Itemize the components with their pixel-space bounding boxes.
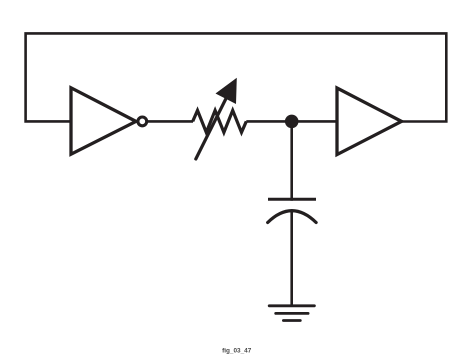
node A junction dot (285, 115, 299, 129)
wire: feedback loop from buffer output up over top to inverter input (26, 33, 447, 121)
wire: capacitor C1 to ground (290, 210, 293, 306)
ground symbol bar 2 (276, 312, 308, 315)
svg-text:fig_03_47: fig_03_47 (222, 348, 252, 355)
wire: node A to buffer U2 input (292, 120, 337, 123)
ground symbol bar 1 (269, 304, 314, 307)
capacitor C1 top plate (268, 198, 316, 201)
wire: U1 bubble to variable resistor R1 (147, 120, 193, 123)
variable resistor R1 zigzag body (193, 110, 247, 132)
ground symbol bar 3 (283, 319, 300, 322)
capacitor C1 curved bottom plate (268, 211, 316, 223)
wire: node A down to capacitor C1 top plate (290, 121, 293, 200)
variable resistor R1 arrowhead (216, 78, 237, 104)
wire: R1 to node A (246, 120, 291, 123)
buffer U2 (337, 88, 402, 155)
variable resistor R1 adjustment arrow shaft (196, 97, 227, 160)
inverter U1 (71, 88, 136, 154)
inversion bubble on U1 output (138, 117, 147, 126)
